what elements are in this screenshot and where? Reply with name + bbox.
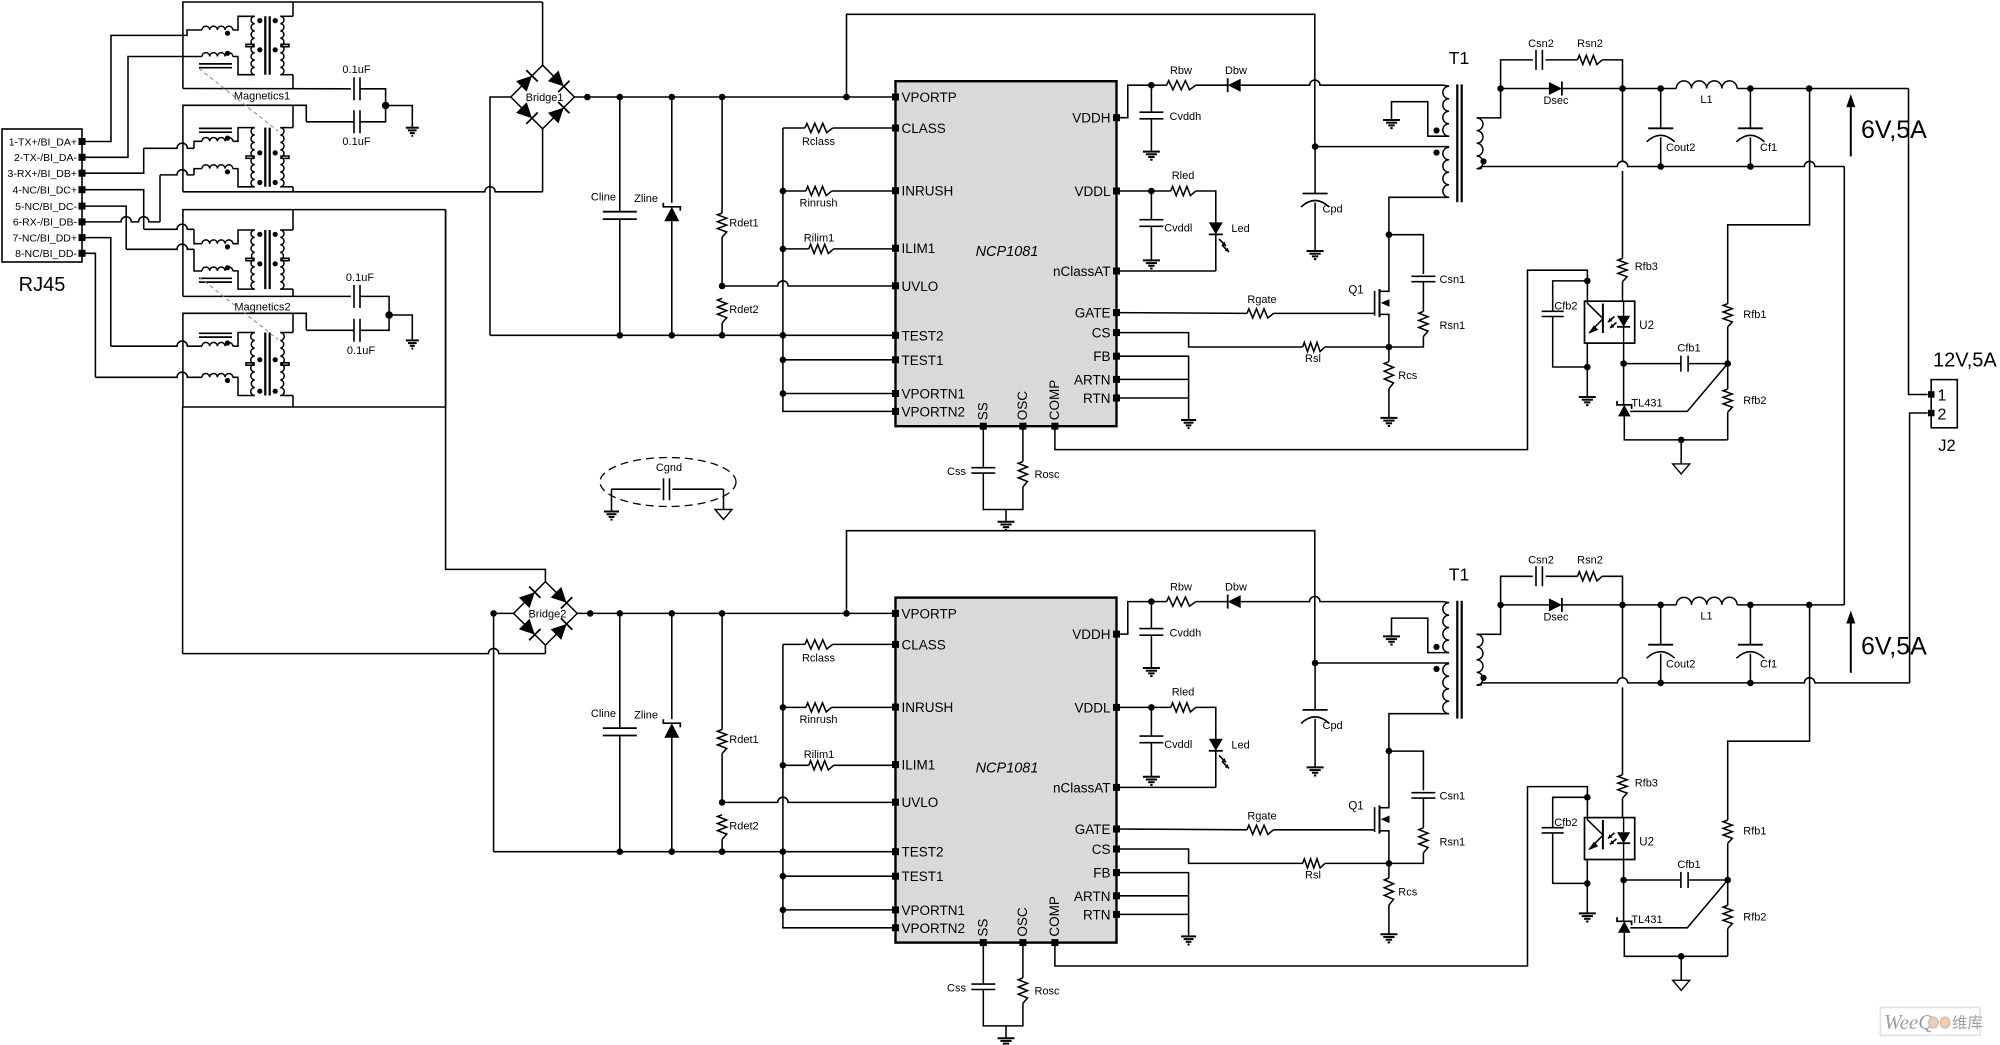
capacitor Cvddh <box>1139 85 1201 151</box>
svg-text:5-NC/BI_DC-: 5-NC/BI_DC- <box>15 201 77 213</box>
wire magnetics2 right edge to bridge2 top <box>446 210 546 582</box>
transformer Magnetics1 lower unit <box>199 105 293 192</box>
svg-text:SS: SS <box>975 919 990 937</box>
wire bridge2 bottom rail <box>183 645 546 653</box>
shunt regulator TL431 <box>1617 398 1663 417</box>
svg-text:OSC: OSC <box>1015 907 1030 937</box>
resistor Rsn1 <box>1389 798 1465 863</box>
diode Dsec <box>1501 82 1569 108</box>
capacitor Cfb2 <box>1542 281 1588 367</box>
wire CS net <box>1117 849 1303 863</box>
junction dot feedback ground node <box>1678 437 1685 444</box>
resistor Rfb2 <box>1723 880 1766 956</box>
wire bridge2 left node to TEST2 rail <box>493 613 495 851</box>
svg-text:Rclass: Rclass <box>802 136 836 148</box>
wire magnetics2 cap ground stem <box>389 315 412 340</box>
svg-text:Rinrush: Rinrush <box>800 714 838 726</box>
transistor Q1 <box>1348 751 1389 863</box>
junction dot Q1 source node <box>1386 860 1393 867</box>
ground below Rcs <box>1380 418 1397 426</box>
svg-text:Cout2: Cout2 <box>1666 142 1695 154</box>
transistor Q1 <box>1348 235 1389 347</box>
connector J2 <box>1928 380 1957 455</box>
junction dot feedback divider <box>1724 360 1731 367</box>
wire FB net <box>1117 873 1189 937</box>
capacitor Cfb1 <box>1624 859 1728 888</box>
svg-text:Dbw: Dbw <box>1225 581 1247 593</box>
wire SS-OSC ground stem <box>1005 510 1007 522</box>
wire secondary snubber top <box>1501 576 1533 605</box>
wire left pin bus <box>780 128 896 411</box>
svg-text:Cf1: Cf1 <box>1760 658 1777 670</box>
svg-text:Zline: Zline <box>634 709 658 721</box>
resistor Rled <box>1171 170 1216 210</box>
IC left pins with labels <box>892 90 965 419</box>
svg-text:0.1uF: 0.1uF <box>342 136 370 148</box>
capacitor Cline <box>591 613 637 851</box>
svg-text:COMP: COMP <box>1047 896 1062 937</box>
wire U2 emitter <box>1586 343 1588 397</box>
junction dot secondary top node <box>1497 602 1504 609</box>
wire VDDH riser <box>1117 85 1152 118</box>
capacitor 0.1uF magnetics2 upper <box>346 272 389 315</box>
svg-text:Zline: Zline <box>634 193 658 205</box>
svg-text:Rinrush: Rinrush <box>800 198 838 210</box>
svg-text:Rilim1: Rilim1 <box>804 749 835 761</box>
shunt regulator TL431 <box>1617 914 1663 933</box>
svg-text:Rfb1: Rfb1 <box>1743 309 1766 321</box>
wire series link between halves <box>1843 167 1845 605</box>
wire feedback tap riser <box>1728 605 1810 820</box>
svg-text:T1: T1 <box>1449 564 1469 584</box>
svg-text:UVLO: UVLO <box>902 795 939 810</box>
capacitor Csn1 <box>1411 790 1465 802</box>
transformer T1 upper primary winding <box>1392 602 1450 653</box>
resistor Rosc <box>1006 943 1060 1026</box>
svg-text:8-NC/BI_DD-: 8-NC/BI_DD- <box>15 248 77 260</box>
wire output bottom rail <box>1481 161 1844 170</box>
ground below FB comb <box>1181 936 1196 944</box>
svg-text:RTN: RTN <box>1083 391 1111 406</box>
inductor L1 <box>1676 597 1737 622</box>
svg-text:Rsl: Rsl <box>1305 869 1321 881</box>
ground magnetics1 caps <box>406 128 419 136</box>
ground below Cpd <box>1307 767 1324 775</box>
svg-text:Bridge1: Bridge1 <box>526 92 564 104</box>
capacitor Cout2 <box>1647 605 1696 683</box>
svg-text:U2: U2 <box>1639 320 1654 332</box>
label Magnetics2 <box>234 302 290 314</box>
junction dot magnetics1 cap node <box>382 102 390 110</box>
wire VDDL net <box>1117 188 1171 195</box>
wire Cpd node to lower primary <box>1315 662 1449 664</box>
svg-text:VPORTN2: VPORTN2 <box>902 404 966 419</box>
svg-text:ARTN: ARTN <box>1074 889 1111 904</box>
optocoupler U2 phototransistor <box>1587 303 1603 334</box>
resistor Rcs <box>1384 863 1417 934</box>
wire TL431 ref <box>1630 880 1728 928</box>
diode Dbw <box>1196 65 1247 92</box>
svg-text:Magnetics1: Magnetics1 <box>234 91 290 103</box>
resistor Rgate <box>1117 294 1375 318</box>
resistor Rbw <box>1151 581 1195 606</box>
wire pin7 to magnetics2 lower choke A <box>86 238 203 347</box>
svg-text:Cvddh: Cvddh <box>1170 111 1202 123</box>
svg-text:1-TX+/BI_DA+: 1-TX+/BI_DA+ <box>9 136 77 148</box>
svg-text:2: 2 <box>1938 407 1947 424</box>
wire RTN net <box>1117 913 1189 915</box>
svg-text:7-NC/BI_DD+: 7-NC/BI_DD+ <box>13 232 77 244</box>
svg-text:TEST2: TEST2 <box>902 845 944 860</box>
svg-text:VPORTP: VPORTP <box>902 606 957 621</box>
capacitor Cf1 <box>1736 89 1777 167</box>
wire L1 to output <box>1737 85 1908 92</box>
transformer T1 core <box>1457 601 1461 719</box>
svg-text:Css: Css <box>947 466 966 478</box>
capacitor Cpd <box>1301 663 1343 767</box>
svg-text:Cline: Cline <box>591 708 616 720</box>
watermark WeeQoo <box>1880 1008 1983 1036</box>
diode Led <box>1209 726 1250 787</box>
svg-text:Rfb3: Rfb3 <box>1635 261 1658 273</box>
wire feedback ground stem <box>1680 956 1682 980</box>
transformer T1 label <box>1449 564 1469 584</box>
resistor Rinrush <box>783 186 896 209</box>
svg-text:VPORTP: VPORTP <box>902 90 957 105</box>
connector RJ45 pins with labels <box>8 136 86 260</box>
svg-text:Rgate: Rgate <box>1247 294 1276 306</box>
wire SS-OSC ground stem <box>1005 1026 1007 1038</box>
junction dot feedback ground node <box>1678 953 1685 960</box>
wire UVLO net <box>719 797 896 806</box>
resistor Rclass <box>783 640 896 665</box>
svg-text:Cvddl: Cvddl <box>1164 739 1192 751</box>
arrow output 6V <box>1846 94 1855 156</box>
svg-text:Rdet1: Rdet1 <box>729 218 758 230</box>
wire TL431 ref <box>1630 364 1728 412</box>
wire magnetics2 to bridge2 bottom <box>182 407 184 654</box>
wire pin1 to magnetics1 choke A <box>86 30 203 142</box>
junction dot VDDH node <box>1148 82 1155 89</box>
wire left pin bus <box>780 644 896 927</box>
zener diode Zline <box>634 613 680 851</box>
resistor Rdet2 <box>718 815 759 852</box>
capacitor 0.1uF magnetics1 upper <box>342 64 385 106</box>
junction dot feedback divider <box>1724 877 1731 884</box>
wire magnetics1 cap ground stem <box>386 106 413 128</box>
svg-text:Cfb1: Cfb1 <box>1677 343 1700 355</box>
svg-text:Cline: Cline <box>591 192 616 204</box>
wire bridge1 left vertex to TEST2 rail <box>490 97 511 335</box>
svg-text:Rled: Rled <box>1172 686 1195 698</box>
resistor Rfb1 <box>1723 304 1766 364</box>
inductor L1 <box>1676 81 1737 106</box>
wire CS net <box>1117 333 1303 347</box>
svg-text:L1: L1 <box>1700 94 1712 106</box>
wire magnetics1 upper output rail <box>183 88 351 90</box>
label 6V,5A <box>1861 632 1927 660</box>
svg-text:0.1uF: 0.1uF <box>342 64 370 76</box>
svg-text:Rbw: Rbw <box>1170 581 1192 593</box>
wire ARTN net <box>1117 895 1189 897</box>
IC right pins with labels <box>1053 111 1120 406</box>
svg-text:3-RX+/BI_DB+: 3-RX+/BI_DB+ <box>8 168 77 180</box>
wire Dbw to transformer <box>1241 80 1443 85</box>
wire U2 collector <box>1586 818 1588 820</box>
arrow output 6V <box>1846 611 1855 673</box>
junction dot magnetics2 cap node <box>385 311 393 319</box>
ground at T1 upper primary <box>1383 636 1400 644</box>
svg-text:Rdet1: Rdet1 <box>729 734 758 746</box>
junction dot Q1 drain node <box>1386 231 1393 238</box>
svg-text:Led: Led <box>1231 223 1249 235</box>
transformer T1 upper primary winding <box>1392 85 1450 136</box>
wire pin4 to magnetics2 choke A <box>86 190 203 244</box>
IC NCP1081 PoE-PD controller (Bridge1 half) <box>896 81 1117 426</box>
svg-text:U2: U2 <box>1639 836 1654 848</box>
wire pin2 to magnetics1 choke B <box>86 57 203 158</box>
dashed callout magnetics2 <box>199 277 278 340</box>
resistor Rsl <box>1303 859 1389 882</box>
wire output bottom rail <box>1481 678 1909 687</box>
bridge rectifier Bridge2 <box>514 582 578 646</box>
svg-text:Rosc: Rosc <box>1035 469 1061 481</box>
svg-text:Q1: Q1 <box>1348 801 1363 813</box>
wire top rail <box>847 531 1315 663</box>
capacitor Cfb1 <box>1624 343 1728 372</box>
transformer Magnetics2 upper unit <box>199 210 293 297</box>
junction dot VDDH node <box>1148 598 1155 605</box>
capacitor Cgnd with dashed ellipse <box>600 458 736 507</box>
junction dot Q1 source node <box>1386 344 1393 351</box>
wire TL431 anode rail <box>1624 416 1727 440</box>
resistor Rgate <box>1117 810 1375 834</box>
wire Cgnd right ground stem <box>723 489 725 509</box>
svg-text:Bridge2: Bridge2 <box>528 608 566 620</box>
svg-text:Dsec: Dsec <box>1543 611 1569 623</box>
svg-text:Rfb2: Rfb2 <box>1743 395 1766 407</box>
svg-text:Rosc: Rosc <box>1035 985 1061 997</box>
svg-text:Cvddl: Cvddl <box>1164 223 1192 235</box>
wire TL431 anode rail <box>1624 933 1727 957</box>
svg-text:Rsn1: Rsn1 <box>1440 836 1466 848</box>
transformer T1 secondary winding <box>1477 89 1501 169</box>
svg-text:Rbw: Rbw <box>1170 65 1192 77</box>
svg-text:INRUSH: INRUSH <box>902 184 954 199</box>
optocoupler U2 phototransistor <box>1587 820 1603 851</box>
wire J2 pin2 feed <box>1910 413 1928 683</box>
capacitor 0.1uF magnetics2 lower <box>306 315 389 357</box>
svg-text:Rcs: Rcs <box>1398 886 1417 898</box>
svg-text:VPORTN1: VPORTN1 <box>902 903 966 918</box>
svg-text:VDDH: VDDH <box>1072 627 1110 642</box>
wire U2 emitter <box>1586 860 1588 914</box>
wire TEST1 net <box>783 875 896 877</box>
svg-text:Csn1: Csn1 <box>1440 790 1466 802</box>
svg-text:Magnetics2: Magnetics2 <box>234 302 290 314</box>
svg-text:Dbw: Dbw <box>1225 65 1247 77</box>
svg-text:Cout2: Cout2 <box>1666 658 1695 670</box>
wire magnetics1 top rail <box>183 2 543 89</box>
capacitor Cvddl <box>1139 191 1192 260</box>
svg-text:J2: J2 <box>1938 437 1955 455</box>
resistor Rsl <box>1303 342 1389 365</box>
transformer Magnetics2 lower unit <box>199 313 293 407</box>
junction dot led cathode node <box>1620 877 1627 884</box>
optocoupler U2 led <box>1608 301 1630 343</box>
wire TEST1 net <box>783 359 896 361</box>
svg-text:UVLO: UVLO <box>902 279 939 294</box>
wire pin3 to magnetics1 lower choke A <box>86 141 203 173</box>
wire COMP net <box>1055 787 1588 966</box>
wire magnetics2 lower box <box>183 210 446 407</box>
svg-text:Cvddh: Cvddh <box>1170 627 1202 639</box>
junction dots on VPORTP rail <box>584 94 850 101</box>
svg-text:WeeQ: WeeQ <box>1884 1010 1933 1034</box>
svg-text:Rdet2: Rdet2 <box>729 304 758 316</box>
svg-text:TEST2: TEST2 <box>902 328 944 343</box>
svg-text:FB: FB <box>1093 349 1110 364</box>
svg-text:TEST1: TEST1 <box>902 353 944 368</box>
wire secondary snubber top <box>1501 60 1533 89</box>
optocoupler U2 box <box>1585 818 1655 860</box>
ground open triangle feedback <box>1673 980 1690 990</box>
bridge rectifier Bridge1 <box>511 65 575 129</box>
wire VPORTN1 net <box>783 393 896 395</box>
svg-text:RTN: RTN <box>1083 907 1111 922</box>
svg-text:0.1uF: 0.1uF <box>347 345 375 357</box>
wire VPORTN1 net <box>783 909 896 911</box>
svg-text:12V,5A: 12V,5A <box>1933 350 1997 372</box>
svg-text:FB: FB <box>1093 866 1110 881</box>
ground below U2 <box>1579 913 1596 921</box>
svg-text:6V,5A: 6V,5A <box>1861 632 1927 660</box>
svg-text:CLASS: CLASS <box>902 121 946 136</box>
svg-text:OSC: OSC <box>1015 391 1030 421</box>
junction dot U2 emitter node <box>1584 880 1591 887</box>
svg-text:Rsn1: Rsn1 <box>1440 320 1466 332</box>
svg-text:Rsl: Rsl <box>1305 353 1321 365</box>
svg-text:Rdet2: Rdet2 <box>729 820 758 832</box>
svg-text:ILIM1: ILIM1 <box>902 758 936 773</box>
dashed callout magnetics1 <box>199 69 278 132</box>
svg-text:RJ45: RJ45 <box>19 274 66 296</box>
resistor Rbw <box>1151 65 1195 90</box>
IC bottom pins with labels <box>975 896 1062 946</box>
IC right pins with labels <box>1053 627 1120 922</box>
junction dots on VPORTP rail <box>587 610 850 617</box>
svg-text:CS: CS <box>1092 842 1111 857</box>
svg-text:Rclass: Rclass <box>802 652 836 664</box>
wire VPORTP rail <box>577 612 895 614</box>
junction dot Cpd node <box>1312 660 1319 667</box>
resistor Rilim1 <box>783 233 896 254</box>
svg-text:1: 1 <box>1938 388 1947 405</box>
wire Rfb3 riser <box>1622 687 1624 774</box>
wire secondary rail <box>1562 602 1676 609</box>
wire secondary rail <box>1562 85 1676 92</box>
resistor Rdet2 <box>718 298 759 335</box>
polarity dot T1 lower primary <box>1433 150 1439 156</box>
resistor Rosc <box>1006 426 1060 509</box>
transformer Magnetics1 upper unit <box>199 2 293 89</box>
svg-text:Cfb2: Cfb2 <box>1554 301 1577 313</box>
capacitor 0.1uF magnetics1 lower <box>306 106 385 149</box>
junction dots on TEST2 rail <box>617 848 787 855</box>
ground at T1 upper primary <box>1383 120 1400 128</box>
polarity dot T1 secondary <box>1480 675 1486 681</box>
junction dot led cathode node <box>1620 360 1627 367</box>
wire magnetics2 upper output rail <box>183 295 351 297</box>
capacitor Cpd <box>1301 147 1343 251</box>
wire U2 led cathode <box>1623 343 1625 404</box>
wire drain node to Csn1 <box>1389 751 1424 790</box>
wire nClassAT net <box>1117 786 1216 788</box>
junction dot Q1 drain node <box>1386 748 1393 755</box>
wire feedback ground stem <box>1680 440 1682 464</box>
svg-text:NCP1081: NCP1081 <box>976 244 1039 260</box>
wire FB net <box>1117 356 1189 420</box>
resistor Rdet1 <box>718 97 759 286</box>
connector RJ45 box <box>2 129 82 296</box>
ground below FB comb <box>1181 420 1196 428</box>
svg-text:6-RX-/BI_DB-: 6-RX-/BI_DB- <box>13 217 78 229</box>
wire top rail <box>847 14 1315 146</box>
wire nClassAT net <box>1117 270 1216 272</box>
transformer T1 secondary winding <box>1477 605 1501 685</box>
ground open triangle feedback <box>1673 464 1690 474</box>
polarity dot T1 upper primary <box>1433 127 1439 133</box>
capacitor Cline <box>591 97 637 335</box>
svg-text:Cfb2: Cfb2 <box>1554 817 1577 829</box>
svg-text:Csn2: Csn2 <box>1528 554 1554 566</box>
wire magnetics1 to bridge top <box>542 2 544 65</box>
capacitor Cvddl <box>1139 707 1192 776</box>
IC NCP1081 PoE-PD controller (Bridge2 half) <box>896 598 1117 943</box>
capacitor Csn2 <box>1528 38 1554 70</box>
wire magnetics2 top rail <box>183 210 446 297</box>
svg-text:Cfb1: Cfb1 <box>1677 859 1700 871</box>
ground below Cvddl <box>1143 260 1160 268</box>
zener diode Zline <box>634 97 680 335</box>
wire snubber node to Rfb3 <box>1622 605 1624 679</box>
svg-text:Rled: Rled <box>1172 170 1195 182</box>
resistor Rclass <box>783 123 896 148</box>
svg-text:Rcs: Rcs <box>1398 370 1417 382</box>
svg-text:Rsn2: Rsn2 <box>1577 38 1603 50</box>
ground below U2 <box>1579 397 1596 405</box>
svg-text:Rsn2: Rsn2 <box>1577 554 1603 566</box>
resistor Rilim1 <box>783 749 896 770</box>
wire COMP net <box>1055 270 1588 449</box>
svg-text:CLASS: CLASS <box>902 637 946 652</box>
resistor Rfb2 <box>1723 364 1766 440</box>
svg-text:Rfb3: Rfb3 <box>1635 777 1658 789</box>
junction dots on TEST2 rail <box>617 332 787 339</box>
svg-text:维库: 维库 <box>1952 1014 1983 1032</box>
svg-text:NCP1081: NCP1081 <box>976 760 1039 776</box>
wire pin8 to magnetics2 lower choke B <box>86 253 203 377</box>
capacitor Css <box>947 943 1006 1026</box>
transformer T1 label <box>1449 48 1469 68</box>
optocoupler U2 box <box>1585 301 1655 343</box>
resistor Rdet1 <box>718 613 759 802</box>
polarity dot T1 secondary <box>1480 158 1486 164</box>
wire U2 led cathode <box>1623 860 1625 921</box>
junction dot Cfb2 top node <box>1584 278 1591 285</box>
capacitor Csn1 <box>1411 274 1465 286</box>
svg-text:Dsec: Dsec <box>1543 95 1569 107</box>
